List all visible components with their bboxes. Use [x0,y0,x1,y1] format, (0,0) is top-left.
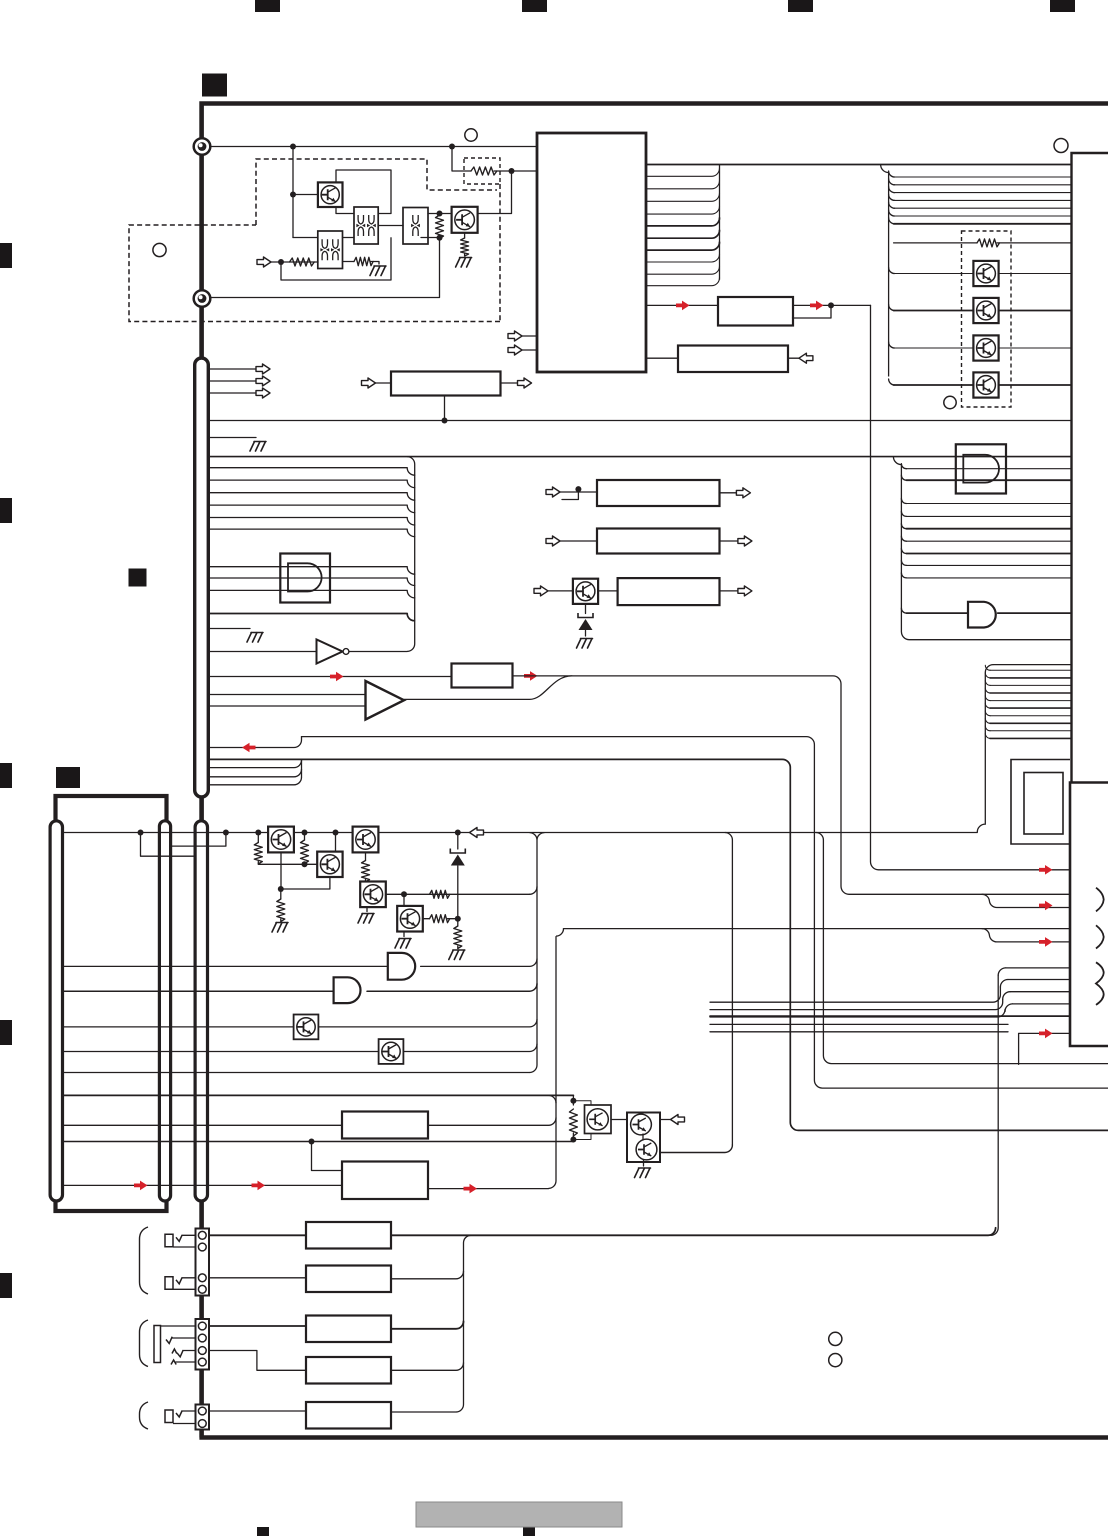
fan2 row 2 [906,479,1071,481]
row jack5 out [391,1411,456,1413]
bus elbow right r6 [889,210,895,216]
bus elbow right r2 [889,179,895,185]
resistor R5 [461,238,469,256]
title block placeholder grey box [416,1502,622,1527]
crop mark bottom 1 [257,1527,269,1536]
wire R10 stub [257,833,259,843]
wire R5 to ground [464,254,466,256]
branch vertical to row1063 [816,833,1108,1064]
junction node box1 input [575,486,581,492]
connector ring 1 [194,138,211,155]
bus wire right r5 [894,207,1072,209]
loopback elbow 5 [985,696,990,701]
wire LBB to arrow [788,357,799,359]
connector ref circle B [153,243,166,256]
bundle row 3 into box [1010,991,1070,993]
right connector box lower [1070,783,1108,1047]
wire feedback loop bottom [281,238,391,280]
wire Q18 right arrow [660,1119,670,1121]
red arrow pin12 a [676,301,690,311]
bundle elbow top 4 [1005,1004,1013,1012]
AND gate right G2 [968,602,996,628]
label box LB4j [306,1222,391,1249]
input arrow U1 pin a [508,331,522,341]
section marker square lower-left [56,767,80,788]
transistor Q15 [294,1015,319,1040]
loopback row 9 [990,730,1072,732]
wire R11 stub [304,833,306,841]
ground below Q2 [456,258,472,268]
AND gate G4 [334,977,361,1003]
section marker square mid-left [129,569,147,587]
AND gate G3 [388,953,415,980]
junction node step LB2 [309,1139,315,1145]
resistor R10 [254,843,262,864]
wire R10 bottom [258,862,317,865]
label box LB0 [391,372,501,396]
wire short row 2 [208,769,301,777]
notch box inner [1024,773,1063,835]
junction node after R2 [509,168,515,174]
row y832 loop stub B [171,833,226,847]
fan2 elbow AND [901,608,906,613]
jack JA pin 2 [198,1243,206,1251]
wire PC2 out to R3 [343,261,355,263]
resistor R17 [569,1109,577,1136]
fan2 elbow 7 [901,549,906,554]
fan2 row 6 [906,540,1071,542]
jack JA pin 3 [198,1274,206,1282]
ground G3 [250,442,266,452]
wire Q11 emitter [281,877,330,889]
resistor R13 [362,861,370,882]
loopback elbow 2 [985,673,990,678]
bus merge vertical from U1 [719,165,721,280]
row jack5 y1411 [209,1410,306,1412]
PC2 element a [322,239,327,260]
bus elbow right r3 [889,187,895,193]
wire Q12 emitter [365,852,367,860]
phone plug P4 [165,1410,173,1423]
bus elbow array 4 [889,379,895,385]
loopback elbow 8 [985,718,990,723]
wire R13 to Q13 [365,880,367,882]
wire array row 3 left [894,347,974,349]
wire array row 1 right [999,273,1072,275]
ground G7 [395,939,411,949]
label box LBC [452,664,513,688]
IC U1 system microcontroller [537,133,646,372]
wire row 747 red [208,737,301,748]
fan2 row 7 [906,553,1071,555]
left bus row u5 [208,518,414,526]
wire amp input 2 [208,705,365,707]
output arrow LB0 [518,378,532,388]
label box LB1c [597,480,720,506]
wire R2 branch down [452,147,471,172]
bus elbow array 3 [889,342,895,348]
wire step to LB2 [312,1142,343,1171]
bus split vertical right [881,165,889,377]
wire R17 bottom stub [572,1133,574,1142]
label box LBA on pin12 [718,297,793,326]
left bus row u3 [208,493,414,501]
label box LB6j [306,1316,391,1343]
wire resistor row right b [997,242,1072,244]
input arrow box2 [546,536,560,546]
wire LBC row left [208,676,451,678]
aux row 1031 [710,1031,1008,1033]
junction node at R2 branch [449,144,455,150]
fan2 elbow 8 [901,560,906,565]
section marker square top-left [202,74,227,97]
wire node to PC2 [293,237,318,239]
resistor R11 [301,840,309,864]
wire zener to node [457,866,459,919]
jack connector JB [196,1319,210,1370]
junction Q14 base [401,891,407,897]
bus elbow array 2 [889,305,895,311]
crop mark bottom 2 [523,1527,535,1536]
cable bundle C2 [159,821,170,1201]
bundle v1 long to jack row [991,975,999,1235]
wire T8 link bottom [573,1132,591,1140]
row y1051 left [63,1051,379,1053]
bus split vertical right mid [893,457,1071,640]
loopback elbow 1 [985,665,990,670]
shield box lower-left [56,796,167,1211]
zener D2 [578,613,593,618]
transistor Q2 [452,207,478,233]
photocoupler PC3 [403,208,428,245]
loopback row 3 [990,684,1072,686]
wire Q10 emitter [280,852,282,889]
wire amp input 1 [208,694,365,696]
wire amp output [404,676,572,700]
wire array row 4 right [999,384,1072,386]
crop mark left 2 [0,498,12,523]
transistor Q10 [268,827,294,853]
merge vertical V2 [549,929,564,1189]
wire Q14 base stub [403,894,405,906]
transistor Q1 [318,182,343,207]
ground G5 [272,923,288,933]
P3 contact check 1 [166,1337,172,1344]
loopback bus top [993,664,1071,666]
row y1051 right [403,1044,537,1052]
connector ring 2 [194,290,211,307]
wire zener stub top [457,833,459,850]
jack JB pin 2 [198,1334,206,1342]
transistor Q16 [379,1039,404,1064]
ground G8 [449,950,465,960]
bus wire right r7 [894,223,1072,225]
row y966 left [63,965,388,967]
bus elbow right r1 [889,171,895,177]
wire P3 ring [172,1337,196,1339]
wire Q13 out row894 [386,893,530,895]
wire box1 out [720,492,737,494]
jack JB pin 4 [198,1358,206,1366]
junction zener bottom [455,916,461,922]
bundle v2 jog [710,987,1000,1002]
loopback bus vertical [977,665,993,833]
left bus row u2 [208,480,414,488]
row y832 main [63,832,978,834]
wire P3 tip [161,1325,196,1327]
wire feedback under arrow [793,305,832,318]
red arrow into right box row2 [1039,901,1053,911]
bus wire right r4 [894,199,1072,201]
bus wire right r6 [894,215,1072,217]
bus wire right r1 [894,176,1072,178]
transistor Q6 array [973,372,998,397]
wire Q2 collector to R2 node [478,171,512,214]
wire PC3 to Q2 [428,213,452,215]
input arrow to R1 [257,257,271,267]
fan2 row 5 [906,528,1071,530]
bus elbow right r4 [889,194,895,200]
fan2 elbow 4 [901,511,906,516]
phone plug P2 [165,1277,173,1290]
V1 fillet row894 [530,887,538,895]
bus wire right r3 [894,192,1072,194]
wire Q2 emitter down [464,233,466,238]
red arrow into right box row3 [1039,937,1053,947]
junction node R4 bottom [437,235,443,241]
wire zener to ground [585,631,587,637]
label box LB1 [342,1112,428,1139]
crop mark top 1 [255,0,280,12]
wire arrow to box2 [560,540,597,542]
junction node R1 input [278,259,284,265]
row y991 left [63,990,334,992]
jack merge vertical [456,1235,471,1412]
wire U1 pin9 [646,254,720,262]
loopback elbow 7 [985,711,990,716]
red arrow into right box row1 [1039,865,1053,875]
wire Q13 ground stub [366,907,368,911]
wire stub arrow 2 [208,380,256,382]
wire U loop arrow4 [1019,1033,1070,1064]
fan2 elbow 5 [901,524,906,529]
output arrow cable 1 [256,364,270,374]
transistor Q12 [353,827,379,853]
junction emitter node [278,886,284,892]
page frame border [199,104,1108,1438]
loopback row 8 [990,722,1072,724]
red arrow LBC out [524,671,538,681]
wire Q14 ground stub [403,932,405,937]
wire TQ to box3 [598,590,618,592]
wire TQ zener stub [585,604,587,614]
connector AND box left D symbol [288,563,322,591]
photocoupler PC1 [354,207,378,244]
jack connector JC [196,1405,210,1430]
bundle row 1 into box [1006,967,1070,969]
fan2 elbow 2 [901,475,906,480]
ground below R3 [370,266,386,276]
row y1072 [63,1072,530,1074]
bus row y456 long [208,456,1071,458]
PC2 element b [333,239,338,260]
junction R10 top [255,830,261,836]
junction node R17 top [570,1098,576,1104]
P3 contact check 2 [172,1349,183,1357]
junction node Q1 base [290,192,296,198]
fan2 elbow 9 [901,573,906,578]
connector AND box left [280,554,330,603]
input arrow box3 [534,586,548,596]
red arrow row747 [242,743,256,753]
row y832 loop stub A [141,833,196,857]
fan2 row 3 [906,503,1071,505]
bus elbow right r5 [889,202,895,208]
red arrow LBC in [330,672,344,682]
amplifier buffer [366,681,405,720]
output arrow box1 [736,488,750,498]
zener D1 [450,849,465,854]
connector ref circle C [944,396,956,408]
transistor Q7 [573,579,598,604]
wire U1 pin8 [646,242,720,250]
jack connector JA [196,1229,210,1296]
wire base bus vertical at x293 [292,147,294,238]
bundle row 2 into box [1008,979,1070,981]
left bus row u4 [208,505,414,512]
row928 straight into box [982,928,1070,930]
wire U1 pin11 [646,278,720,286]
fan2 row 4 [906,515,1071,517]
wire node to connector ring 2 [211,238,440,298]
jog row928 to row941 [982,929,1070,942]
wire stub under box1 arrow [562,492,578,500]
wire ground stub lower [208,628,250,630]
jack JB pin 3 [198,1347,206,1355]
left bus row m2 [208,578,414,586]
wire arrow to PC2 input [271,261,318,263]
bus wire U1 pin1 top [646,164,1072,166]
wire node to Q1 [293,194,318,196]
input arrow U1 pin b [508,345,522,355]
left bus row u6 [208,529,414,537]
row jack4 out [391,1363,464,1371]
row y1125 [63,1124,343,1126]
transistor Q17 symbol [587,1109,608,1130]
fan2 row 9 [906,577,1071,579]
junction Q11 base node [333,830,339,836]
cable bundle C1 [50,821,62,1201]
right connector box upper [1072,153,1108,783]
loopback row 6 [990,707,1072,709]
wire U1 pin12 [646,304,718,306]
wire R2 to U1 [494,170,537,172]
wire arrow to U1 pin b [522,349,537,351]
row y1027 left [63,1026,294,1028]
wire inverter input [208,651,316,653]
red arrow row1185 b [252,1181,266,1191]
wire stub arrow 1 [208,368,256,370]
row y1141 [63,1141,574,1143]
wire Q14 out [423,918,430,920]
junction node under LB0 [442,418,448,424]
transistor Q17 box [585,1105,612,1134]
junction zener top [455,830,461,836]
bundle row 4 into box [1013,1003,1071,1005]
label box LB8j [306,1402,391,1429]
left bus vertical [407,457,415,652]
input arrow box1 [546,487,560,497]
jack JB pin 1 [198,1322,206,1330]
wire LB0 bottom stub [444,396,446,421]
wire R15 to zener node [448,918,458,920]
junction loop A [138,830,144,836]
connector CB1 D symbol [963,455,999,483]
jack JC pin 2 [198,1420,206,1428]
output arrow cable 2 [256,376,270,386]
resistor R4 [436,215,444,239]
wire Q1 collector loop [336,170,391,214]
bus wire right r2 [894,184,1072,186]
wire array row 3 right [999,347,1072,349]
io arrow row832 [470,828,484,838]
P3 contact break [171,1360,176,1365]
junction node R17 bottom [570,1137,576,1143]
wire short row 3 [208,777,301,785]
row y1095 thick [63,1094,574,1096]
wire U1 pin5 [646,206,720,214]
loopback row 10 [990,737,1072,739]
wire box3 out [720,590,738,592]
row y991 right [367,984,537,992]
transistor Q4 array [973,298,998,323]
wire T8 link top [573,1101,591,1108]
row894 straight into box [982,893,1070,895]
merge vertical V1 [530,833,545,1073]
transistor Q18b symbol [636,1139,657,1160]
bus elbow array 1 [889,268,895,274]
brace group C [140,1402,149,1429]
wire PC3 internal bottom link [421,237,440,239]
wire arrow to box1 [560,491,597,493]
row y1185 [63,1184,343,1186]
row y928 right [564,928,983,930]
wire Q18 ground stub [643,1160,645,1166]
wire U1 pin4 [646,193,720,201]
crop mark top 2 [522,0,547,12]
wire ground stub upper [208,437,256,439]
jack JA pin 1 [198,1231,206,1239]
wire PC1 to PC3 [378,225,403,227]
junction loop B [223,830,229,836]
fan2 elbow 6 [901,536,906,541]
loopback row 4 [990,692,1072,694]
cable bundle C3 [195,821,207,1201]
label box LB7j [306,1357,391,1384]
output arrow box2 [738,536,752,546]
bundle elbow top 1 [998,968,1006,976]
wire LB1 out [428,1118,556,1126]
thick row into box [710,1015,1070,1017]
fan2 row 1 [906,468,1071,470]
fan2 row 8 [906,564,1071,566]
brace mark 3 in right box [1096,962,1104,1005]
junction node on ring1 net [290,144,296,150]
notch box outer [1011,760,1070,845]
wire node to R12 [280,889,282,921]
transistor Q11 [317,852,342,877]
wire U1 pin7 [646,230,720,238]
